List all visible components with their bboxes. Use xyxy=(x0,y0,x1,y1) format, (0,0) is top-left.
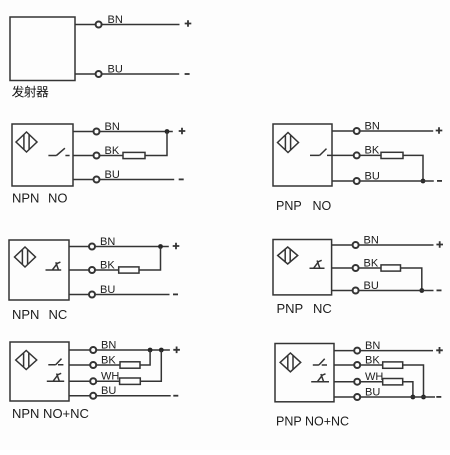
NC contact symbol xyxy=(310,260,325,268)
terminal circle BK PNP NO+NC xyxy=(354,362,360,368)
sensor box NPN NC xyxy=(9,240,69,300)
plus terminal NPN NO+NC xyxy=(173,347,180,354)
terminal circle BN PNP NO xyxy=(354,128,360,134)
terminal circle BK NPN NO xyxy=(94,153,100,159)
plus terminal NPN NO xyxy=(179,128,186,135)
wire BU to minus PNP NC xyxy=(359,290,434,292)
junction node load/BU PNP NO xyxy=(421,179,426,184)
wire BK load to junction PNP NO+NC xyxy=(403,365,424,397)
wire BN to plus (transmitter) xyxy=(102,24,180,26)
wire BN to plus NPN NO xyxy=(100,131,173,133)
wire BN to plus PNP NO+NC xyxy=(360,350,433,352)
plus terminal (transmitter) xyxy=(185,20,192,27)
wire BU to minus NPN NO+NC xyxy=(96,395,170,397)
wire load to junction NPN NO xyxy=(145,132,167,156)
sensor symbol (diamond) NPN NO+NC xyxy=(16,351,37,370)
wire BK stub PNP NO xyxy=(332,154,354,156)
wire BK to load NPN NO+NC xyxy=(96,364,120,366)
wire WH load to junction PNP NO+NC xyxy=(403,382,413,397)
wire BK stub NPN NO+NC xyxy=(69,364,90,366)
wire BN to plus PNP NO xyxy=(360,130,433,132)
wire BU to minus PNP NO xyxy=(360,180,434,182)
sensor symbol (diamond) PNP NO+NC xyxy=(280,353,301,372)
junction node BN/load NPN NO xyxy=(165,129,170,134)
wire BU stub NPN NO xyxy=(73,179,93,181)
wire BK stub PNP NO+NC xyxy=(334,364,354,366)
terminal circle BU NPN NC xyxy=(89,292,95,298)
load resistor WH PNP NO+NC xyxy=(383,379,403,385)
wire WH stub PNP NO+NC xyxy=(334,381,354,383)
terminal circle BN NPN NC xyxy=(89,244,95,250)
wire BU stub PNP NO xyxy=(332,180,354,182)
wire BN stub NPN NO xyxy=(73,131,93,133)
wire BN stub NPN NO+NC xyxy=(69,349,90,351)
NO contact symbol xyxy=(313,359,327,365)
wire WH to load NPN NO+NC xyxy=(96,380,119,382)
svg-text:NC: NC xyxy=(49,307,68,322)
terminal circle BK PNP NO xyxy=(354,152,360,158)
minus terminal NPN NC xyxy=(173,293,178,295)
minus terminal PNP NO+NC xyxy=(436,396,441,398)
wire BN to plus NPN NC xyxy=(95,246,169,248)
wire BK load to junction NPN NO+NC xyxy=(140,350,150,365)
wire BU stub NPN NO+NC xyxy=(69,395,90,397)
junction node load/BU PNP NC xyxy=(419,288,424,293)
wire BK stub NPN NO xyxy=(73,155,93,157)
wire BU to minus (transmitter) xyxy=(102,73,180,75)
svg-text:NO: NO xyxy=(313,199,332,213)
junction node BK-load/BU PNP NO+NC xyxy=(421,395,426,400)
sensor symbol (diamond) PNP NC xyxy=(278,247,298,264)
wire BU stub (transmitter) xyxy=(75,73,95,75)
NC contact symbol xyxy=(46,262,62,270)
NO contact symbol xyxy=(48,148,69,155)
wire WH to load PNP NO+NC xyxy=(360,381,382,383)
wire BN stub PNP NC xyxy=(332,244,353,246)
minus terminal PNP NO xyxy=(437,180,442,182)
sensor symbol (diamond) NPN NC xyxy=(15,247,36,267)
terminal circle BN NPN NO xyxy=(94,129,100,135)
load resistor PNP NO xyxy=(381,152,403,158)
terminal circle BN PNP NO+NC xyxy=(354,348,360,354)
NC contact symbol xyxy=(311,374,329,382)
NO contact symbol xyxy=(310,149,332,156)
sensor symbol (diamond) PNP NO xyxy=(278,133,299,153)
minus terminal PNP NC xyxy=(437,289,442,291)
svg-text:NPN: NPN xyxy=(12,307,39,322)
terminal circle BU PNP NO+NC xyxy=(354,394,360,400)
plus terminal PNP NC xyxy=(436,241,443,248)
load resistor WH NPN NO+NC xyxy=(120,378,141,384)
wire BK to load NPN NC xyxy=(95,269,119,271)
terminal circle BK NPN NO+NC xyxy=(90,362,96,368)
wire BK to load NPN NO xyxy=(100,155,123,157)
sensor box PNP NO+NC xyxy=(275,344,334,402)
load resistor PNP NC xyxy=(381,265,401,271)
terminal circle BU PNP NO xyxy=(354,178,360,184)
wire load to junction PNP NO xyxy=(403,155,423,181)
wire BN stub PNP NO+NC xyxy=(334,350,354,352)
terminal circle BN PNP NC xyxy=(353,242,359,248)
wire BN stub (transmitter) xyxy=(75,24,95,26)
junction node BK-load/BN NPN NO+NC xyxy=(148,348,153,353)
junction node WH-load/BN NPN NO+NC xyxy=(159,348,164,353)
terminal circle BN NPN NO+NC xyxy=(90,347,96,353)
terminal circle BU (transmitter) xyxy=(96,71,102,77)
wire BK to load PNP NO+NC xyxy=(360,364,382,366)
wire load to junction NPN NC xyxy=(139,247,161,271)
sensor box PNP NO xyxy=(273,124,332,186)
load resistor NPN NC xyxy=(119,267,139,273)
svg-text:NO: NO xyxy=(48,190,68,205)
sensor symbol (diamond) NPN NO xyxy=(16,132,37,152)
wire WH stub NPN NO+NC xyxy=(69,380,90,382)
plus terminal PNP NO+NC xyxy=(436,347,443,354)
wire BN stub NPN NC xyxy=(69,246,89,248)
NO contact symbol xyxy=(48,359,63,365)
terminal circle BU NPN NO xyxy=(94,177,100,183)
sensor box NPN NO xyxy=(12,124,73,186)
sensor box NPN NO+NC xyxy=(10,342,69,401)
terminal circle WH PNP NO+NC xyxy=(354,379,360,385)
wire WH load to junction NPN NO+NC xyxy=(140,350,161,381)
load resistor BK NPN NO+NC xyxy=(120,362,140,368)
plus terminal NPN NC xyxy=(173,243,180,250)
wire BN to plus NPN NO+NC xyxy=(96,349,170,351)
wire BK stub NPN NC xyxy=(69,269,89,271)
svg-text:NPN NO+NC: NPN NO+NC xyxy=(12,406,89,421)
terminal circle BN (transmitter) xyxy=(96,22,102,28)
label 发射器 xyxy=(12,86,24,98)
minus terminal NPN NO+NC xyxy=(173,395,178,397)
load resistor NPN NO xyxy=(123,152,145,158)
wire BK to load PNP NO xyxy=(360,154,381,156)
minus terminal NPN NO xyxy=(179,178,184,180)
wire BN stub PNP NO xyxy=(332,130,354,132)
junction node BN/load NPN NC xyxy=(158,244,163,249)
wire BU to minus NPN NO xyxy=(100,179,175,181)
wire BU to minus PNP NO+NC xyxy=(360,396,435,398)
terminal circle BU NPN NO+NC xyxy=(90,393,96,399)
minus terminal (transmitter) xyxy=(185,73,190,75)
plus terminal PNP NO xyxy=(436,127,443,134)
wire BK stub PNP NC xyxy=(332,267,353,269)
transmitter box 发射器 xyxy=(10,17,75,81)
terminal circle BU PNP NC xyxy=(353,288,359,294)
svg-text:PNP: PNP xyxy=(276,199,302,213)
terminal circle BK PNP NC xyxy=(353,265,359,271)
svg-text:PNP: PNP xyxy=(277,301,304,316)
NC contact symbol xyxy=(47,373,64,381)
terminal circle WH NPN NO+NC xyxy=(90,378,96,384)
wire BU stub NPN NC xyxy=(69,294,89,296)
wire BU to minus NPN NC xyxy=(95,294,169,296)
load resistor BK PNP NO+NC xyxy=(383,362,403,368)
junction node WH-load/BU PNP NO+NC xyxy=(411,395,416,400)
svg-text:NC: NC xyxy=(313,301,332,316)
wire BN to plus PNP NC xyxy=(359,244,434,246)
sensor box PNP NC xyxy=(273,240,332,295)
wire BK to load PNP NC xyxy=(359,267,381,269)
svg-text:PNP NO+NC: PNP NO+NC xyxy=(276,415,349,429)
wire load to junction PNP NC xyxy=(401,268,422,291)
terminal circle BK NPN NC xyxy=(89,267,95,273)
wire BU stub PNP NC xyxy=(332,290,353,292)
svg-text:NPN: NPN xyxy=(12,190,39,205)
wire BU stub PNP NO+NC xyxy=(334,396,354,398)
